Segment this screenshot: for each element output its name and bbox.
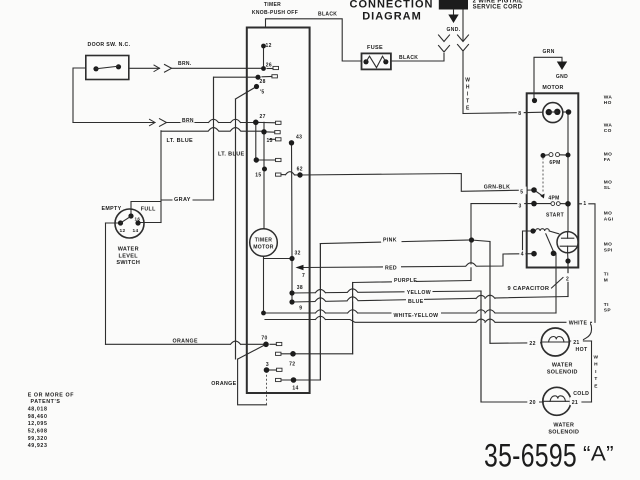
svg-text:SL: SL (604, 185, 611, 191)
crossover hump RED row at x471 (466, 265, 476, 268)
svg-text:RED: RED (385, 266, 397, 272)
svg-text:KNOB-PUSH OFF: KNOB-PUSH OFF (252, 10, 298, 16)
svg-text:20: 20 (529, 400, 535, 406)
wire motor start blade from 5 (534, 190, 543, 196)
svg-text:MO: MO (604, 242, 612, 248)
connector arrow brn-27 (150, 119, 156, 125)
svg-text:LT. BLUE: LT. BLUE (167, 138, 194, 144)
svg-text:14: 14 (292, 385, 298, 391)
line cord connector chevrons white side (458, 35, 469, 42)
terminal tick timer 15a (275, 131, 281, 134)
svg-text:22: 22 (529, 341, 535, 347)
svg-text:52,608: 52,608 (28, 429, 48, 435)
motor ground GRN arrow (557, 62, 567, 71)
svg-text:E: E (594, 383, 598, 389)
svg-text:5: 5 (520, 189, 523, 195)
svg-text:EMPTY: EMPTY (102, 206, 122, 212)
svg-text:W: W (465, 78, 470, 84)
wire BRN door switch to timer 26 (129, 67, 160, 69)
svg-text:WHITE-YELLOW: WHITE-YELLOW (394, 313, 439, 319)
fuse box (362, 53, 391, 69)
svg-text:WA: WA (604, 122, 613, 128)
svg-text:4: 4 (521, 252, 524, 258)
wire timer 62 to GRN-BLK to motor 5 (300, 174, 534, 192)
timer RED row arrow 7 (296, 265, 304, 270)
junction dots timer left column (261, 44, 266, 49)
timer motor circle (250, 229, 278, 257)
hot water solenoid circle (541, 328, 569, 356)
svg-text:'5: '5 (260, 89, 265, 95)
svg-text:CO: CO (604, 128, 612, 134)
wire YELLOW riser to cold solenoid (481, 291, 543, 402)
wire timer 72 row to riser (281, 353, 320, 355)
svg-text:27: 27 (260, 114, 266, 120)
svg-text:E OR MORE OF: E OR MORE OF (28, 393, 75, 399)
cold solenoid coil (544, 400, 570, 402)
riser LT BLUE x235.5 redraw (235, 99, 237, 359)
wire timer motor top to 32 row (264, 258, 293, 260)
capacitor leader line (552, 278, 564, 289)
svg-text:TIMER: TIMER (264, 2, 281, 8)
motor 4PM blade arrowhead (540, 194, 544, 199)
water level switch contacts (128, 213, 133, 218)
wire BLACK from timer knob to fuse (266, 19, 362, 61)
wire BRN to timer 27 (73, 122, 155, 124)
wire PURPLE riser x352.6 (352, 283, 354, 354)
wire timer 43-32-38-9 column (291, 143, 294, 302)
svg-text:FA: FA (604, 157, 611, 163)
motor pin 3 (517, 201, 524, 209)
svg-text:T: T (594, 376, 597, 382)
motor pin 2 (565, 273, 572, 282)
svg-text:“A”: “A” (583, 443, 614, 466)
riser LT BLUE x213.5 redraw (213, 77, 215, 200)
wire start winding left leg (523, 231, 531, 254)
svg-text:6PM: 6PM (549, 160, 560, 166)
svg-text:SPI: SPI (604, 248, 613, 254)
svg-text:12: 12 (120, 228, 126, 234)
wire BLACK fuse to line-cord connector (391, 54, 444, 62)
svg-text:9: 9 (299, 306, 302, 312)
label YELLOW (405, 288, 433, 295)
svg-text:16: 16 (135, 216, 141, 221)
svg-text:YELLOW: YELLOW (407, 290, 431, 296)
svg-text:WATER: WATER (553, 422, 574, 428)
wire motor 3 contacts to bus (534, 203, 550, 205)
wire RED row to motor 4 (303, 254, 534, 268)
motor start winding coil (536, 229, 550, 231)
svg-text:38: 38 (297, 285, 303, 291)
svg-text:15: 15 (255, 173, 261, 179)
svg-text:BLACK: BLACK (399, 55, 418, 61)
wire door switch left leg (73, 68, 86, 123)
wire start winding to capacitor (549, 231, 559, 234)
svg-text:12,095: 12,095 (28, 421, 48, 427)
cold water solenoid circle (543, 387, 571, 415)
wire YELLOW row (292, 291, 481, 293)
junction dots timer right column (289, 140, 294, 145)
svg-text:MOTOR: MOTOR (542, 85, 563, 91)
water level switch circle (115, 209, 144, 238)
svg-text:SERVICE CORD: SERVICE CORD (473, 4, 523, 10)
svg-text:GRN-BLK: GRN-BLK (484, 184, 510, 190)
svg-text:AGI: AGI (604, 217, 614, 223)
svg-text:43: 43 (296, 135, 302, 141)
wire WHITE drop to hot 21 (582, 322, 592, 340)
svg-text:48,018: 48,018 (28, 407, 48, 413)
cold solenoid pin 21 (570, 397, 582, 405)
crossover humps BRN row 27 (209, 121, 219, 124)
svg-text:PURPLE: PURPLE (394, 278, 417, 284)
service cord plug black box (439, 0, 468, 10)
svg-text:4PM: 4PM (548, 196, 559, 202)
wire motor internal right bus (567, 112, 569, 232)
crossover humps BLUE row (315, 300, 325, 303)
wire riser motor3/pink/purple x471 (470, 204, 472, 281)
svg-text:MO: MO (604, 211, 612, 217)
junction dots timer bottom (263, 342, 269, 348)
wire water level sw 12 drop (106, 222, 121, 224)
svg-text:MOTOR: MOTOR (253, 244, 274, 250)
svg-text:LEVEL: LEVEL (119, 253, 139, 259)
motor pin 1 (582, 199, 588, 206)
wire timer 70 tick stub (270, 343, 276, 345)
wire riser LT.BLUE x235.5 (235, 99, 237, 359)
svg-text:GND.: GND. (447, 27, 461, 33)
wire blade timer 70 to orange riser (238, 344, 266, 359)
svg-text:DOOR SW. N.C.: DOOR SW. N.C. (88, 42, 131, 48)
junction dots motor (532, 98, 537, 103)
crossover hump ORANGE row (231, 343, 241, 346)
crossover humps WHITE-YELLOW row (315, 312, 325, 315)
svg-text:TI: TI (604, 302, 609, 308)
line cord connector chevrons black side (439, 35, 450, 42)
wire motor 3 row (471, 203, 534, 205)
svg-text:15: 15 (267, 138, 273, 144)
connector arrow door-26 (154, 65, 160, 71)
svg-text:35-6595: 35-6595 (484, 438, 577, 474)
wire riser LT.BLUE x161 (160, 131, 162, 223)
svg-text:99,320: 99,320 (28, 436, 48, 442)
svg-text:PINK: PINK (383, 238, 397, 244)
wire start switch blade (546, 234, 554, 252)
svg-text:62: 62 (297, 167, 303, 173)
svg-text:70: 70 (261, 335, 267, 341)
svg-text:1: 1 (583, 201, 586, 207)
motor pin 8 (517, 108, 524, 116)
capacitor plates (562, 237, 574, 239)
water level switch blade (121, 217, 131, 224)
label WHITE row right (567, 319, 591, 325)
wire LT. BLUE row to timer 15 (161, 130, 264, 132)
hot solenoid coil (542, 341, 568, 343)
terminal tick timer 15b (276, 138, 282, 141)
motor pin 5 (519, 187, 527, 195)
wire timer 14 row to riser (281, 379, 320, 381)
svg-text:WHITE: WHITE (569, 320, 588, 326)
svg-text:GRN: GRN (543, 49, 555, 55)
svg-text:WATER: WATER (118, 247, 139, 253)
svg-text:12: 12 (266, 43, 272, 49)
svg-text:SOLENOID: SOLENOID (547, 370, 578, 376)
terminal tick timer 26 (267, 68, 273, 70)
wire capacitor internal stubs (567, 232, 569, 239)
terminal tick timer 27 (276, 121, 282, 124)
wire motor 8 internal (527, 111, 543, 113)
svg-text:CONNECTION: CONNECTION (350, 0, 434, 10)
svg-text:49,923: 49,923 (28, 443, 48, 449)
svg-text:W: W (594, 355, 599, 361)
svg-text:BLACK: BLACK (318, 12, 337, 18)
svg-text:21: 21 (573, 340, 579, 346)
svg-text:BRN: BRN (182, 118, 194, 124)
svg-text:LT. BLUE: LT. BLUE (218, 152, 245, 158)
svg-text:3: 3 (266, 362, 269, 368)
svg-text:28: 28 (260, 79, 266, 85)
wire motor 1 to white bracket (578, 204, 595, 322)
wire PINK to hot solenoid riser (472, 240, 542, 343)
svg-text:WA: WA (604, 95, 613, 101)
wire 72 to purple riser link (320, 353, 352, 355)
svg-text:26: 26 (266, 62, 272, 68)
wire ORANGE riser to timer 3 (238, 359, 267, 405)
label PINK (381, 237, 402, 243)
svg-text:COLD: COLD (573, 391, 589, 397)
svg-text:9 CAPACITOR: 9 CAPACITOR (508, 286, 550, 292)
svg-text:7: 7 (302, 273, 305, 279)
terminal tick timer 28 (262, 76, 272, 78)
terminal tick timer 3 (277, 368, 283, 371)
svg-text:BRN.: BRN. (178, 61, 192, 67)
motor main winding contacts (546, 109, 552, 115)
wire PURPLE row (353, 281, 471, 283)
wire blade timer 5 to riser x235.5 (236, 87, 257, 100)
wire hot solenoid 21 stub (569, 340, 591, 342)
wire GRAY row (161, 199, 214, 201)
wire timer 28 to riser x213 (214, 77, 259, 200)
door switch box (86, 56, 129, 80)
wire WHITE row (265, 320, 592, 323)
motor pin 4 (519, 250, 525, 256)
crossover humps LT BLUE row (209, 129, 219, 132)
wire timer 12-26 jumper (263, 46, 265, 69)
svg-text:8: 8 (518, 111, 521, 117)
svg-text:WATER: WATER (552, 362, 573, 368)
svg-text:GND: GND (556, 74, 568, 80)
riser YELLOW x481 (480, 291, 482, 402)
terminal tick timer 70 (276, 342, 282, 345)
svg-text:HOT: HOT (576, 347, 588, 353)
wire cold solenoid 21 stub (570, 401, 591, 403)
wire GRN motor ground (534, 57, 562, 100)
svg-text:21: 21 (572, 400, 578, 406)
fuse element (363, 59, 368, 64)
svg-text:DIAGRAM: DIAGRAM (362, 10, 422, 22)
riser PURPLE x352.6 (redraw over humps) (352, 283, 354, 354)
svg-text:T: T (466, 99, 469, 105)
wire WY riser to start switch (555, 253, 557, 313)
wire BLUE row to capacitor (292, 297, 568, 303)
svg-text:32: 32 (295, 251, 301, 257)
svg-text:HO: HO (604, 100, 612, 106)
door switch contacts and blade (93, 66, 98, 71)
wire PINK row (319, 244, 321, 381)
svg-text:ORANGE: ORANGE (211, 381, 236, 387)
svg-text:SOLENOID: SOLENOID (548, 430, 579, 436)
svg-text:BLUE: BLUE (408, 299, 424, 305)
svg-text:TI: TI (604, 272, 609, 278)
svg-text:M: M (604, 278, 608, 284)
svg-text:3: 3 (519, 204, 522, 210)
crossover hump timer 62 row (286, 172, 295, 175)
svg-text:TIMER: TIMER (255, 238, 273, 244)
svg-text:14: 14 (133, 228, 139, 234)
wire ORANGE row to timer 70 (106, 343, 267, 345)
motor box (527, 93, 579, 267)
svg-text:MO: MO (604, 180, 612, 186)
crossover humps YELLOW row (315, 291, 325, 294)
terminal tick timer 62 row (276, 173, 282, 176)
label WHITE-YELLOW (392, 311, 442, 318)
hot solenoid pin 22 (527, 338, 540, 347)
wire timer 62 row with tick (281, 174, 286, 176)
motor main winding circle (543, 103, 563, 123)
wire capacitor bottom lead (567, 253, 569, 261)
wire water level sw 14 to riser (138, 222, 161, 224)
svg-text:SP: SP (604, 308, 612, 314)
wire timer 15 stub rows (270, 138, 276, 140)
hot solenoid pin 21 (571, 337, 583, 345)
wire timer motor bottom (263, 256, 265, 313)
wire water level sw 16 stub (131, 202, 161, 217)
svg-text:GRAY: GRAY (174, 197, 191, 203)
label GRAY (173, 195, 193, 202)
svg-text:FUSE: FUSE (367, 45, 383, 51)
wire WHITE-YELLOW row (264, 312, 557, 314)
riser PINK-HOT x490 (489, 242, 491, 344)
terminal tick timer 14 (276, 378, 282, 381)
label PURPLE (392, 277, 416, 284)
svg-text:SWITCH: SWITCH (116, 260, 140, 266)
cold solenoid pin 20 (527, 397, 539, 405)
label RED (383, 263, 401, 271)
svg-text:ORANGE: ORANGE (173, 338, 198, 344)
wire white service line down to motor 8 (462, 10, 464, 41)
svg-text:PATENT'S: PATENT'S (31, 399, 61, 405)
junction dot pink/motor3 (469, 237, 474, 242)
svg-text:2: 2 (566, 277, 569, 283)
svg-text:MO: MO (604, 152, 612, 158)
crossover humps WHITE row (315, 318, 325, 321)
ground arrow below plug (453, 10, 455, 15)
wire motor 6PM switch leads (543, 154, 549, 157)
svg-text:FULL: FULL (141, 207, 156, 213)
terminal tick timer 72 (276, 352, 282, 355)
riser PINK/72/14 x320.4 (319, 244, 321, 381)
label BRN row 27 (181, 116, 195, 122)
motor 3-row contact circles (551, 202, 555, 206)
svg-text:H: H (594, 362, 598, 368)
svg-text:I: I (467, 92, 469, 98)
wire motor governor dashed link (542, 158, 544, 193)
svg-text:98,460: 98,460 (28, 414, 48, 420)
svg-text:72: 72 (289, 361, 295, 367)
wire timer 27 to 15 jumpers (255, 122, 257, 160)
wire timer 3 tick stub (269, 369, 277, 371)
svg-text:H: H (466, 85, 470, 91)
svg-text:START: START (546, 213, 564, 219)
label BLUE (406, 297, 424, 304)
motor 6PM contact circles (549, 153, 553, 157)
svg-text:E: E (466, 106, 470, 112)
timer box (247, 28, 310, 394)
capacitor circle (557, 232, 578, 253)
